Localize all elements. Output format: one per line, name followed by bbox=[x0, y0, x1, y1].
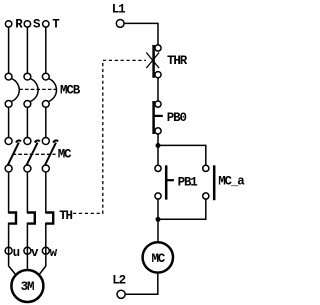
MC pole 3 bottom contact circle bbox=[42, 165, 49, 172]
MC pole 2 blade bbox=[26, 140, 39, 165]
terminal L2 circle bbox=[117, 290, 125, 298]
PB0 contact top circle bbox=[155, 101, 161, 107]
TH heater element pole 3 bbox=[46, 213, 53, 224]
wire S phase: MC to TH bbox=[26, 172, 28, 214]
THR contact bar bbox=[152, 45, 155, 78]
svg-text:PB0: PB0 bbox=[167, 111, 187, 125]
terminal S circle bbox=[24, 21, 30, 27]
wire S phase: TH to motor terminal v bbox=[26, 223, 28, 269]
PB1 actuator tick bbox=[166, 179, 174, 181]
MCB pole 2 arc bbox=[30, 79, 38, 102]
wire PB1 to junction B bbox=[157, 199, 159, 219]
wire R phase: terminal to MCB bbox=[8, 27, 10, 73]
svg-text:u: u bbox=[13, 246, 20, 260]
THR contact top circle bbox=[155, 45, 161, 51]
wire S phase: MCB to MC bbox=[26, 107, 28, 137]
MCB pole 1 arc bbox=[11, 79, 19, 102]
wire THR to PB0 bbox=[157, 78, 159, 101]
MCB pole 1 top contact circle bbox=[5, 73, 12, 80]
MC pole 1 top contact circle bbox=[5, 138, 12, 145]
MC_a contact top circle bbox=[203, 165, 209, 171]
terminal L1 circle bbox=[116, 20, 124, 28]
MC pole 2 top contact circle bbox=[24, 138, 31, 145]
wire junction A to PB1 bbox=[157, 145, 159, 165]
wire MC coil to L2 bbox=[125, 274, 158, 295]
PB1 contact top circle bbox=[155, 165, 161, 171]
svg-text:MC: MC bbox=[58, 148, 72, 162]
junction B dot bbox=[156, 217, 161, 222]
MC pole 2 bottom contact circle bbox=[24, 165, 31, 172]
MC linkage dashed line bbox=[13, 153, 56, 155]
MCB pole 3 top contact circle bbox=[42, 73, 49, 80]
wire R phase: TH to motor terminal u bbox=[8, 223, 10, 267]
svg-text:L1: L1 bbox=[112, 2, 125, 16]
wire R phase: MC to TH bbox=[8, 172, 10, 214]
PB0 contact bottom circle bbox=[155, 128, 161, 134]
motor terminal v circle bbox=[24, 247, 31, 254]
THR contact bottom circle bbox=[155, 72, 161, 78]
terminal T circle bbox=[43, 21, 49, 27]
wire L1 to THR bbox=[124, 23, 158, 45]
terminal R circle bbox=[5, 21, 11, 27]
MCB pole 3 bottom contact circle bbox=[42, 101, 49, 108]
wire PB0 to junction A bbox=[157, 134, 159, 145]
PB1 contact bar bbox=[165, 165, 168, 199]
motor terminal w circle bbox=[42, 247, 49, 254]
wire u to motor bbox=[9, 266, 16, 274]
svg-text:PB1: PB1 bbox=[178, 176, 198, 190]
wire junction A to MC_a branch bbox=[158, 145, 206, 165]
MC pole 3 blade bbox=[45, 140, 58, 165]
wire MC_a branch to junction B bbox=[158, 199, 206, 219]
wire T phase: terminal to MCB bbox=[45, 27, 47, 73]
wire T phase: TH to motor terminal w bbox=[45, 223, 47, 267]
svg-text:MC_a: MC_a bbox=[218, 175, 245, 189]
wire T phase: MCB to MC bbox=[45, 107, 47, 137]
motor 3M circle bbox=[11, 270, 43, 302]
MC_a contact bar bbox=[213, 165, 216, 200]
MCB pole 2 bottom contact circle bbox=[24, 101, 31, 108]
MC pole 1 bottom contact circle bbox=[5, 165, 12, 172]
PB0 actuator tick bbox=[154, 115, 163, 117]
junction A dot bbox=[156, 143, 161, 148]
svg-text:MCB: MCB bbox=[60, 83, 81, 97]
svg-text:TH: TH bbox=[59, 209, 72, 223]
MCB pole 3 arc bbox=[49, 79, 57, 102]
wire R phase: MCB to MC bbox=[8, 107, 10, 137]
THR trip cross bbox=[146, 53, 159, 69]
MC pole 3 top contact circle bbox=[42, 138, 49, 145]
PB1 contact bottom circle bbox=[155, 193, 161, 199]
TH heater element pole 1 bbox=[9, 213, 16, 224]
wire w to motor bbox=[40, 266, 46, 274]
svg-text:3M: 3M bbox=[21, 280, 34, 294]
wire junction B to MC coil bbox=[157, 219, 159, 241]
svg-text:MC: MC bbox=[151, 252, 165, 266]
wire S phase: terminal to MCB bbox=[26, 27, 28, 73]
MCB pole 2 top contact circle bbox=[24, 73, 31, 80]
motor terminal u circle bbox=[5, 247, 12, 254]
MC coil circle bbox=[143, 242, 173, 272]
svg-text:L2: L2 bbox=[112, 273, 125, 287]
MCB pole 1 bottom contact circle bbox=[5, 101, 12, 108]
TH heater element pole 2 bbox=[27, 213, 34, 224]
TH to THR dashed link bbox=[73, 60, 146, 213]
PB0 contact bar bbox=[152, 101, 155, 134]
svg-text:THR: THR bbox=[167, 54, 188, 68]
MCB linkage dashed line bbox=[19, 88, 58, 90]
MC pole 1 blade bbox=[8, 140, 21, 165]
MC_a contact bottom circle bbox=[203, 193, 209, 199]
wire T phase: MC to TH bbox=[45, 172, 47, 214]
